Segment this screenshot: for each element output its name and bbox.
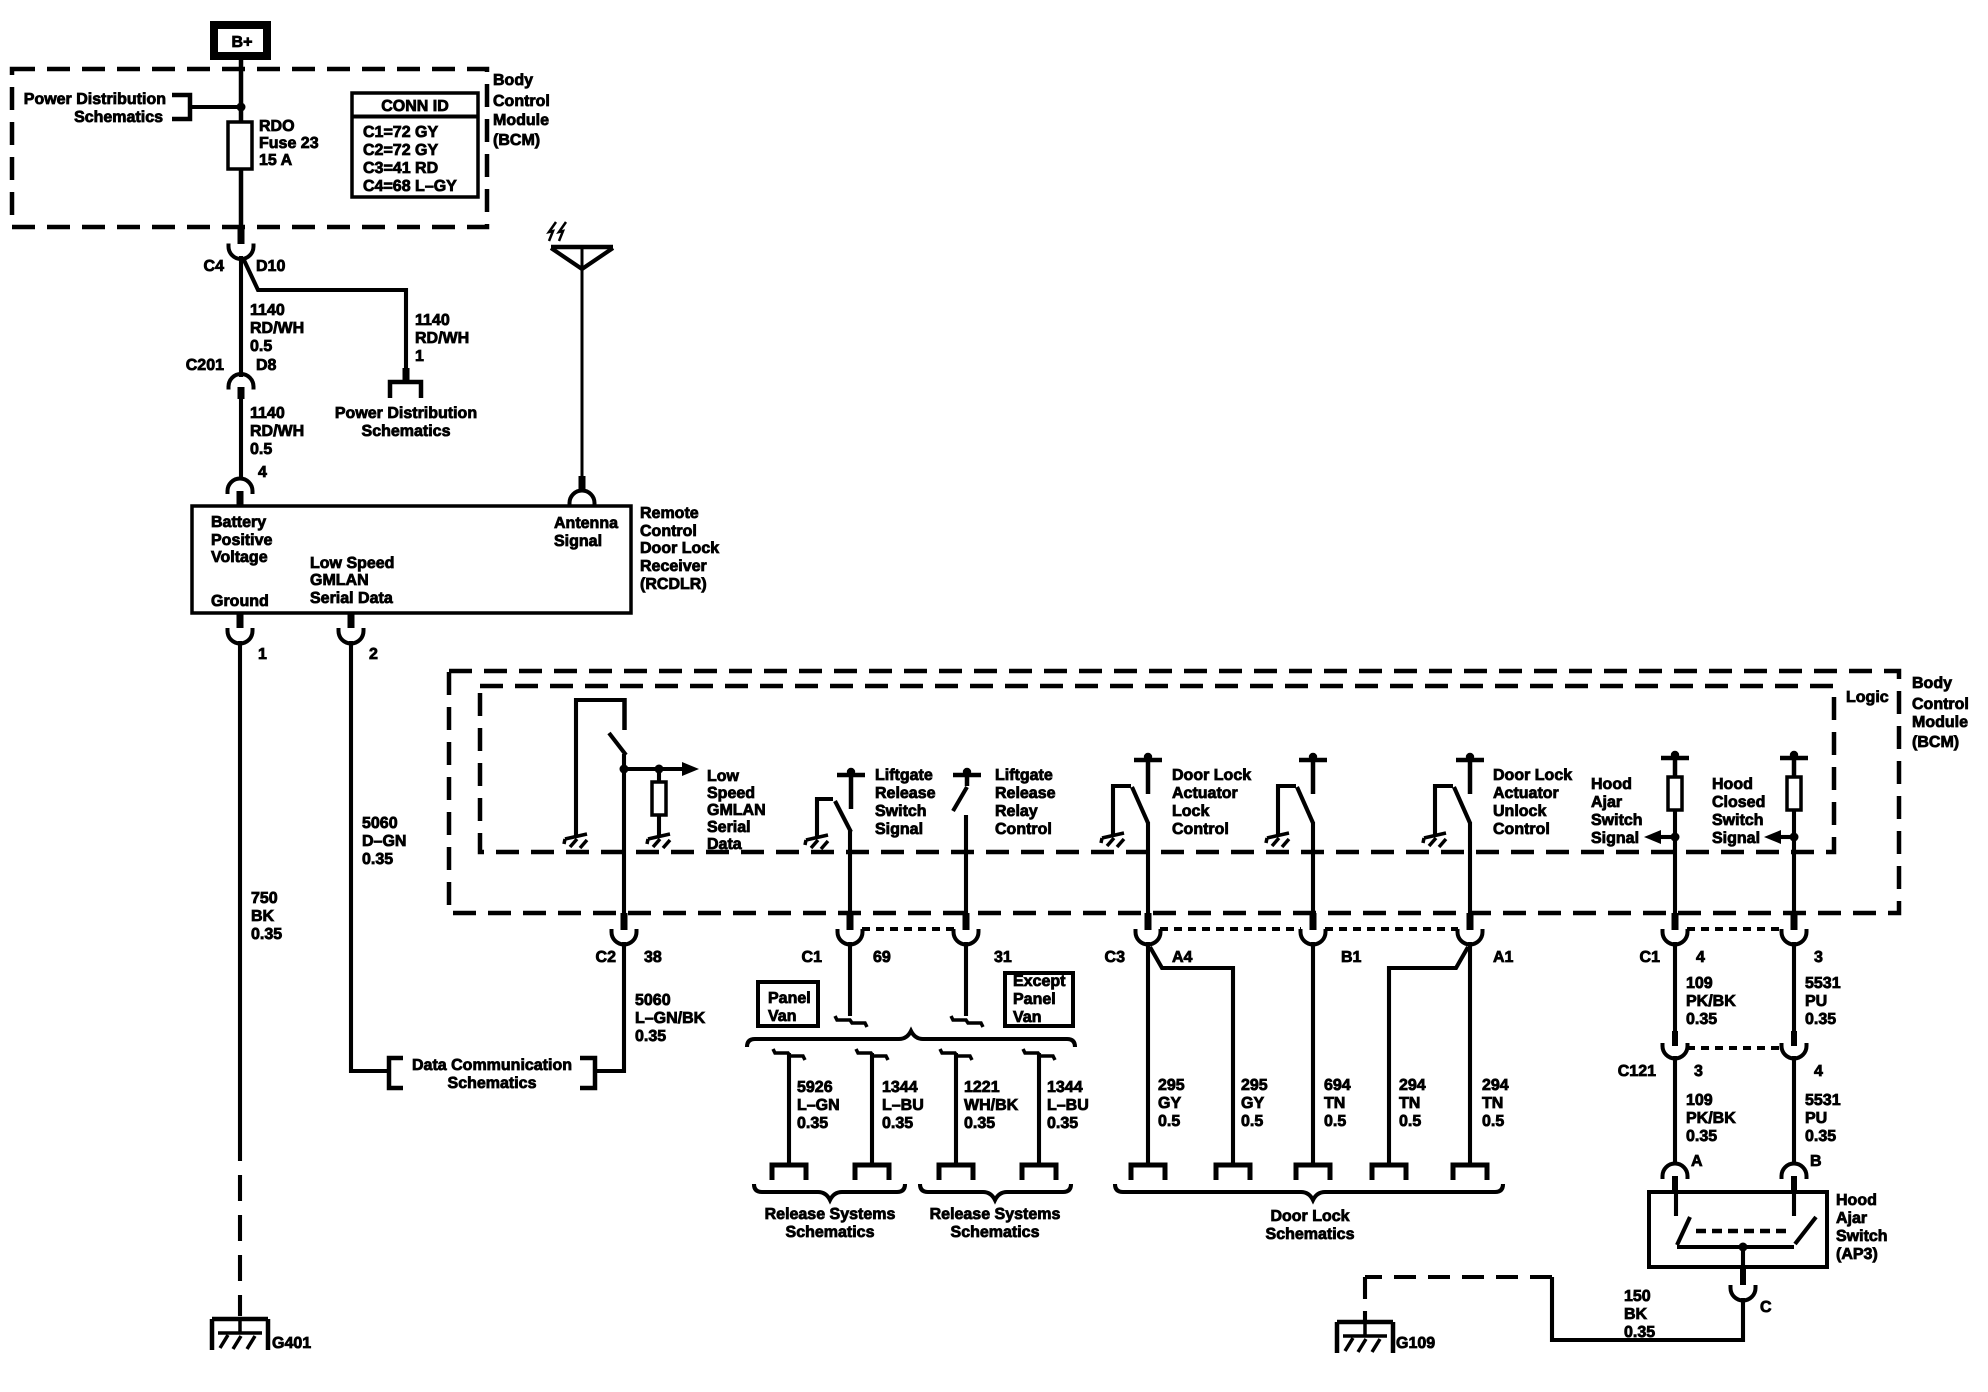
svg-text:4: 4: [1696, 949, 1705, 966]
svg-text:BK: BK: [251, 908, 275, 925]
svg-text:31: 31: [994, 949, 1012, 966]
connector link C1 (4-3): [1687, 927, 1782, 931]
Logic box (dashed): [480, 686, 1834, 852]
svg-text:Schematics: Schematics: [786, 1224, 875, 1241]
Data Communication Schematics reference: [389, 1058, 403, 1088]
svg-text:Voltage: Voltage: [211, 549, 268, 566]
svg-text:Speed: Speed: [707, 785, 755, 802]
svg-text:5060: 5060: [635, 992, 671, 1009]
door lock actuator unlock control circuit: [1456, 753, 1484, 761]
svg-text:Antenna: Antenna: [554, 515, 618, 532]
svg-text:L–BU: L–BU: [1047, 1097, 1089, 1114]
liftgate release switch signal input circuit: [837, 768, 865, 776]
wire to C3-A4: [1146, 822, 1150, 915]
wire 1221 WH/BK 0.35: [940, 1049, 972, 1060]
wire from C1-69 (liftgate switch, Panel Van): [848, 942, 852, 1016]
brace (release systems schematics right): [920, 1184, 1071, 1200]
svg-text:0.35: 0.35: [362, 851, 393, 868]
liftgate release relay control output: [953, 768, 981, 776]
svg-text:0.35: 0.35: [1686, 1011, 1717, 1028]
ground G401: [212, 1319, 268, 1350]
svg-text:1344: 1344: [882, 1079, 918, 1096]
node: switch common junction: [1739, 1243, 1748, 1252]
svg-text:Serial: Serial: [707, 819, 751, 836]
terminal (1344 panel van): [855, 1165, 889, 1180]
svg-text:Low: Low: [707, 768, 740, 785]
svg-text:Power Distribution: Power Distribution: [24, 91, 166, 108]
wire 1344 L-BU 0.35 (panel van): [856, 1049, 888, 1060]
svg-text:RDO: RDO: [259, 118, 295, 135]
wire common to pin C: [1741, 1247, 1745, 1267]
svg-text:Low Speed: Low Speed: [310, 555, 394, 572]
svg-text:Hood: Hood: [1591, 776, 1632, 793]
wire 5531 PU 0.35 (C121 to hood ajar switch B): [1792, 1056, 1796, 1164]
svg-text:(BCM): (BCM): [1912, 734, 1959, 751]
svg-text:C3=41 RD: C3=41 RD: [363, 160, 438, 177]
svg-text:Control: Control: [640, 523, 697, 540]
svg-text:Control: Control: [493, 93, 550, 110]
svg-text:Schematics: Schematics: [951, 1224, 1040, 1241]
wire: fuse to connector C4: [239, 169, 244, 230]
wire 1140 RD/WH 0.5 (C201 to RCDLR pin 4): [239, 399, 243, 479]
door lock output B1 circuit: [1299, 753, 1327, 761]
terminal (1221): [939, 1165, 973, 1180]
Remote Control Door Lock Receiver (RCDLR) box: [192, 506, 631, 613]
svg-text:1140: 1140: [250, 405, 285, 422]
svg-text:A1: A1: [1493, 949, 1514, 966]
svg-text:Door Lock: Door Lock: [1493, 767, 1572, 784]
svg-text:Positive: Positive: [211, 532, 272, 549]
svg-text:B+: B+: [232, 34, 253, 51]
svg-text:15 A: 15 A: [259, 152, 293, 169]
switch blade (door lock actuator unlock control): [1454, 787, 1470, 823]
svg-text:0.35: 0.35: [1047, 1115, 1078, 1132]
connector C2 pin 38: [621, 913, 628, 930]
svg-text:0.35: 0.35: [797, 1115, 828, 1132]
svg-text:GY: GY: [1158, 1095, 1181, 1112]
arrow (hood ajar switch signal): [1644, 830, 1661, 844]
terminal (295 second): [1216, 1165, 1250, 1180]
svg-text:Hood: Hood: [1712, 776, 1753, 793]
svg-text:D10: D10: [256, 258, 285, 275]
svg-text:G109: G109: [1396, 1335, 1435, 1352]
wire 5531 PU 0.35 (C1-3 to C121): [1792, 942, 1796, 1032]
connector C1 pin 31: [963, 913, 970, 930]
svg-text:B1: B1: [1341, 949, 1362, 966]
wire to C3-A1: [1468, 822, 1472, 915]
RCDLR pin 2: [348, 613, 355, 628]
svg-text:Module: Module: [493, 112, 549, 129]
svg-text:Schematics: Schematics: [74, 109, 163, 126]
wire: B+ feed down to fuse: [239, 57, 244, 122]
connector C1 pin 4: [1672, 913, 1679, 930]
Body Control Module power distribution box (dashed): [12, 69, 487, 227]
svg-text:D8: D8: [256, 357, 277, 374]
antenna pin into RCDLR: [579, 476, 586, 489]
svg-text:0.35: 0.35: [251, 926, 282, 943]
wire 694 TN 0.5 (B1): [1311, 942, 1315, 1163]
svg-text:C2: C2: [596, 949, 617, 966]
svg-text:L–BU: L–BU: [882, 1097, 924, 1114]
svg-text:294: 294: [1399, 1077, 1426, 1094]
svg-text:C2=72 GY: C2=72 GY: [363, 142, 438, 159]
svg-text:Actuator: Actuator: [1493, 785, 1559, 802]
hood ajar switch pin C: [1731, 1285, 1756, 1301]
wire from blade down through C2-38: [622, 754, 626, 915]
svg-text:4: 4: [258, 464, 267, 481]
svg-text:C1: C1: [802, 949, 823, 966]
svg-text:PK/BK: PK/BK: [1686, 993, 1736, 1010]
wire from C1-31 (liftgate relay, Except Panel Van): [964, 942, 968, 1016]
brace (door lock schematics): [1115, 1184, 1503, 1200]
svg-text:1221: 1221: [964, 1079, 1000, 1096]
Hood Ajar Switch (AP3) box: [1649, 1192, 1827, 1267]
svg-text:GY: GY: [1241, 1095, 1264, 1112]
svg-text:RD/WH: RD/WH: [415, 330, 469, 347]
wire 1344 L-BU 0.35 (except panel van): [1023, 1049, 1055, 1060]
svg-text:Schematics: Schematics: [1266, 1226, 1355, 1243]
svg-text:PU: PU: [1805, 1110, 1827, 1127]
svg-text:109: 109: [1686, 975, 1713, 992]
hood ajar switch signal circuit: [1661, 751, 1689, 759]
svg-text:5531: 5531: [1805, 1092, 1841, 1109]
svg-text:Release Systems: Release Systems: [930, 1206, 1061, 1223]
hood ajar switch blade B: [1795, 1217, 1816, 1244]
svg-text:Data: Data: [707, 836, 742, 853]
svg-text:0.5: 0.5: [1482, 1113, 1504, 1130]
Except Panel Van tag box: [1005, 973, 1073, 1026]
connector C3 pin B1: [1310, 913, 1317, 930]
wire to arrow: [624, 767, 683, 771]
wire to C3-B1: [1311, 822, 1315, 915]
svg-text:Door Lock: Door Lock: [1270, 1208, 1349, 1225]
terminal (295 first): [1131, 1165, 1165, 1180]
svg-text:(RCDLR): (RCDLR): [640, 576, 707, 593]
wire 294 TN 0.5 (A1 branch): [1389, 947, 1468, 1163]
relay blade (liftgate release relay control): [953, 787, 967, 811]
connector C3 pin A1: [1467, 913, 1474, 930]
svg-text:750: 750: [251, 890, 278, 907]
svg-text:GMLAN: GMLAN: [707, 802, 766, 819]
svg-text:L–GN/BK: L–GN/BK: [635, 1010, 706, 1027]
svg-text:0.5: 0.5: [1158, 1113, 1180, 1130]
node: junction on B+ feed: [237, 103, 246, 112]
svg-text:Closed: Closed: [1712, 794, 1765, 811]
wire to C1-31: [964, 815, 968, 915]
connector C121 pin 4: [1791, 1031, 1797, 1046]
svg-text:Switch: Switch: [1591, 812, 1643, 829]
svg-text:Control: Control: [1172, 821, 1229, 838]
switch blade (GMLAN): [609, 733, 626, 755]
svg-text:0.35: 0.35: [635, 1028, 666, 1045]
svg-text:294: 294: [1482, 1077, 1509, 1094]
svg-text:3: 3: [1694, 1063, 1703, 1080]
connector C1 pin 69: [847, 913, 854, 930]
svg-text:Switch: Switch: [1712, 812, 1764, 829]
svg-text:RD/WH: RD/WH: [250, 320, 304, 337]
node: GMLAN junction: [620, 765, 629, 774]
svg-text:TN: TN: [1324, 1095, 1345, 1112]
wire from bracket to B+ feed: [190, 105, 241, 109]
connector link C121 (3-4): [1687, 1046, 1782, 1050]
terminal (294 second): [1453, 1165, 1487, 1180]
wire 5926 L-GN 0.35: [773, 1049, 805, 1060]
hood ajar switch common bar: [1677, 1245, 1794, 1249]
svg-text:Unlock: Unlock: [1493, 803, 1546, 820]
connector C121 pin 3: [1672, 1031, 1678, 1046]
connector link C1 (69-31): [862, 927, 954, 931]
wire 1140 RD/WH 0.5 (C4 to C201): [239, 256, 243, 377]
node: resistor junction: [655, 765, 664, 774]
svg-text:Receiver: Receiver: [640, 558, 707, 575]
svg-text:0.35: 0.35: [882, 1115, 913, 1132]
svg-text:Data Communication: Data Communication: [412, 1057, 572, 1074]
ground (left of GMLAN circuit): [564, 834, 587, 848]
svg-text:Release: Release: [875, 785, 936, 802]
resistor (hood ajar input): [1668, 777, 1682, 810]
svg-text:69: 69: [873, 949, 891, 966]
svg-text:Control: Control: [1493, 821, 1550, 838]
arrow (Low Speed GMLAN Serial Data): [682, 762, 699, 776]
fuse RDO Fuse 23 15 A: [228, 122, 252, 169]
svg-text:Door Lock: Door Lock: [640, 540, 719, 557]
svg-text:Except: Except: [1013, 973, 1066, 990]
svg-text:Actuator: Actuator: [1172, 785, 1238, 802]
svg-text:(AP3): (AP3): [1836, 1246, 1878, 1263]
Power Distribution Schematics bracket: [172, 95, 190, 119]
svg-text:Serial Data: Serial Data: [310, 590, 393, 607]
svg-text:1140: 1140: [415, 312, 450, 329]
svg-text:C3: C3: [1105, 949, 1126, 966]
wire 294 TN 0.5 (A1 straight): [1468, 942, 1472, 1163]
terminal (5926): [772, 1165, 806, 1180]
svg-text:Body: Body: [493, 72, 533, 89]
wire 5060 L-GN/BK 0.35 (BCM C2-38 to Data Communication): [597, 942, 624, 1071]
Panel Van tag box: [758, 982, 818, 1026]
wire 150 BK 0.35 (pin C to G109): [1552, 1277, 1743, 1340]
wire 109 PK/BK 0.35 (C121 to hood ajar switch A): [1673, 1056, 1677, 1164]
connector link C3 (A4-B1-A1): [1160, 927, 1458, 931]
terminal (294 first): [1372, 1165, 1406, 1180]
terminal stub at Power Distribution destination: [403, 368, 410, 380]
svg-text:Signal: Signal: [554, 533, 602, 550]
svg-text:Battery: Battery: [211, 514, 266, 531]
door lock actuator lock control circuit: [1134, 753, 1162, 761]
svg-text:1: 1: [415, 348, 424, 365]
ground G109: [1337, 1322, 1393, 1353]
svg-text:TN: TN: [1482, 1095, 1503, 1112]
wire 295 GY 0.5 (A4 branch): [1150, 947, 1233, 1163]
svg-text:694: 694: [1324, 1077, 1351, 1094]
svg-text:Ajar: Ajar: [1591, 794, 1622, 811]
svg-text:Control: Control: [1912, 696, 1969, 713]
svg-text:Control: Control: [995, 821, 1052, 838]
wire to C1-69: [848, 831, 852, 915]
switch blade (liftgate release switch signal): [835, 801, 851, 832]
svg-text:C201: C201: [186, 357, 224, 374]
svg-text:Van: Van: [1013, 1009, 1041, 1026]
svg-text:TN: TN: [1399, 1095, 1420, 1112]
connector C3 pin A4: [1145, 913, 1152, 930]
svg-text:1140: 1140: [250, 302, 285, 319]
svg-text:Ground: Ground: [211, 593, 269, 610]
svg-text:(BCM): (BCM): [493, 132, 540, 149]
hood ajar switch blade A: [1677, 1217, 1690, 1245]
svg-text:C1=72 GY: C1=72 GY: [363, 124, 438, 141]
svg-text:Signal: Signal: [875, 821, 923, 838]
Body Control Module box (dashed, lower): [449, 671, 1899, 913]
svg-text:5926: 5926: [797, 1079, 833, 1096]
svg-text:Schematics: Schematics: [448, 1075, 537, 1092]
svg-text:Signal: Signal: [1591, 830, 1639, 847]
svg-text:150: 150: [1624, 1288, 1651, 1305]
svg-text:Liftgate: Liftgate: [995, 767, 1053, 784]
svg-text:Van: Van: [768, 1008, 796, 1025]
svg-text:C4=68 L–GY: C4=68 L–GY: [363, 178, 457, 195]
svg-text:PK/BK: PK/BK: [1686, 1110, 1736, 1127]
svg-text:Module: Module: [1912, 714, 1968, 731]
svg-text:Fuse 23: Fuse 23: [259, 135, 319, 152]
svg-text:5060: 5060: [362, 815, 398, 832]
terminal (694): [1296, 1165, 1330, 1180]
switch blade (B1 output): [1297, 787, 1313, 823]
svg-text:Liftgate: Liftgate: [875, 767, 933, 784]
svg-text:38: 38: [644, 949, 662, 966]
svg-text:Body: Body: [1912, 675, 1952, 692]
svg-text:Panel: Panel: [1013, 991, 1056, 1008]
svg-text:0.35: 0.35: [964, 1115, 995, 1132]
svg-text:Panel: Panel: [768, 990, 811, 1007]
svg-text:Switch: Switch: [875, 803, 927, 820]
svg-text:4: 4: [1814, 1063, 1823, 1080]
svg-text:Logic: Logic: [1846, 689, 1889, 706]
hood closed switch signal circuit: [1780, 751, 1808, 759]
svg-text:1: 1: [258, 646, 267, 663]
brace (release systems group): [747, 1031, 1075, 1047]
svg-text:0.5: 0.5: [250, 441, 272, 458]
svg-text:0.35: 0.35: [1686, 1128, 1717, 1145]
svg-text:0.35: 0.35: [1624, 1324, 1655, 1341]
resistor (GMLAN pull-up): [657, 769, 661, 782]
svg-text:C121: C121: [1618, 1063, 1656, 1080]
svg-text:109: 109: [1686, 1092, 1713, 1109]
svg-text:Hood: Hood: [1836, 1192, 1877, 1209]
svg-text:5531: 5531: [1805, 975, 1841, 992]
svg-text:GMLAN: GMLAN: [310, 572, 369, 589]
svg-text:WH/BK: WH/BK: [964, 1097, 1019, 1114]
CONN ID table: [352, 93, 478, 197]
svg-text:BK: BK: [1624, 1306, 1648, 1323]
wire 295 GY 0.5 (A4 straight): [1146, 942, 1150, 1163]
antenna: [551, 245, 613, 250]
wire 109 PK/BK 0.35 (C1-4 to C121): [1673, 942, 1677, 1032]
hood ajar switch internal pins: [1676, 1192, 1794, 1216]
connector C201 pin D8 (in-line): [229, 374, 254, 390]
GMLAN driver circuit in logic box: [576, 700, 623, 836]
svg-text:2: 2: [369, 646, 378, 663]
svg-text:C4: C4: [204, 258, 225, 275]
wire 750 BK 0.35 (RCDLR pin 1 to G401): [238, 641, 242, 1135]
svg-text:Relay: Relay: [995, 803, 1038, 820]
destination terminal (Power Distribution Schematics): [390, 382, 421, 398]
connector C1 pin 3: [1791, 913, 1798, 930]
svg-text:0.35: 0.35: [1805, 1128, 1836, 1145]
svg-text:Release: Release: [995, 785, 1056, 802]
svg-text:C: C: [1760, 1299, 1772, 1316]
svg-text:3: 3: [1814, 949, 1823, 966]
hood ajar switch linkage (dashed): [1696, 1229, 1786, 1234]
svg-text:A4: A4: [1172, 949, 1193, 966]
svg-text:G401: G401: [272, 1335, 311, 1352]
svg-text:C1: C1: [1640, 949, 1661, 966]
connector C4 pin D10 (BCM): [238, 228, 245, 244]
svg-text:Power Distribution: Power Distribution: [335, 405, 477, 422]
svg-text:Signal: Signal: [1712, 830, 1760, 847]
wire 5060 D-GN 0.35 (RCDLR pin 2 to Data Communication): [351, 641, 388, 1071]
svg-text:D–GN: D–GN: [362, 833, 406, 850]
svg-text:1344: 1344: [1047, 1079, 1083, 1096]
RCDLR pin 1: [237, 613, 244, 628]
svg-text:0.5: 0.5: [1399, 1113, 1421, 1130]
svg-text:0.5: 0.5: [250, 338, 272, 355]
svg-text:0.5: 0.5: [1324, 1113, 1346, 1130]
ground (under resistor): [647, 834, 670, 848]
svg-text:RD/WH: RD/WH: [250, 423, 304, 440]
svg-text:Schematics: Schematics: [362, 423, 451, 440]
resistor (hood closed input): [1787, 777, 1801, 810]
svg-text:295: 295: [1241, 1077, 1268, 1094]
terminal (1344 except panel van): [1022, 1165, 1056, 1180]
svg-text:L–GN: L–GN: [797, 1097, 840, 1114]
branch wire 1140 RD/WH 1 to Power Distribution: [243, 258, 406, 369]
arrow (hood closed switch signal): [1764, 830, 1781, 844]
brace (release systems schematics left): [754, 1184, 905, 1200]
svg-text:B: B: [1810, 1153, 1822, 1170]
svg-text:0.5: 0.5: [1241, 1113, 1263, 1130]
svg-text:Remote: Remote: [640, 505, 699, 522]
svg-text:Ajar: Ajar: [1836, 1210, 1867, 1227]
switch blade (door lock actuator lock control): [1132, 787, 1148, 823]
svg-text:Release Systems: Release Systems: [765, 1206, 896, 1223]
svg-text:Switch: Switch: [1836, 1228, 1888, 1245]
svg-text:CONN ID: CONN ID: [381, 98, 449, 115]
svg-text:0.35: 0.35: [1805, 1011, 1836, 1028]
battery feed B+ terminal box: [214, 25, 267, 56]
svg-text:PU: PU: [1805, 993, 1827, 1010]
svg-text:Door Lock: Door Lock: [1172, 767, 1251, 784]
svg-text:A: A: [1691, 1153, 1703, 1170]
svg-text:295: 295: [1158, 1077, 1185, 1094]
svg-text:Lock: Lock: [1172, 803, 1209, 820]
